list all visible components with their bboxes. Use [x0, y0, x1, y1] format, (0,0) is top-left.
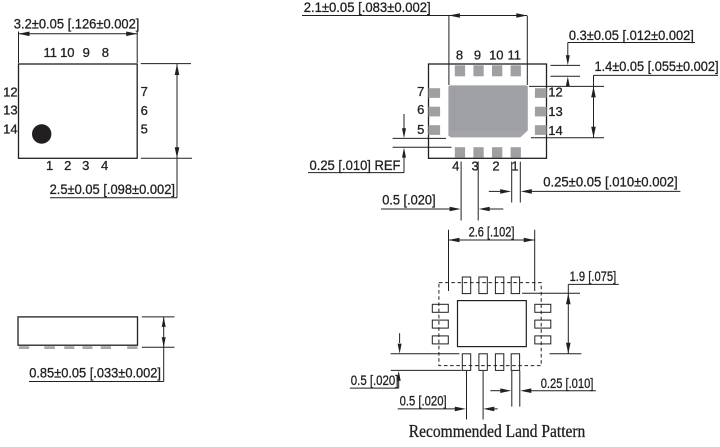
svg-text:10: 10	[489, 48, 503, 63]
svg-text:14: 14	[3, 122, 17, 137]
svg-text:1.4±0.05 [.055±0.002]: 1.4±0.05 [.055±0.002]	[595, 59, 719, 74]
svg-text:14: 14	[548, 123, 562, 138]
svg-text:8: 8	[102, 45, 109, 60]
svg-text:0.85±0.05 [.033±0.002]: 0.85±0.05 [.033±0.002]	[29, 366, 161, 381]
svg-text:2: 2	[64, 158, 71, 173]
svg-text:0.3±0.05 [.012±0.002]: 0.3±0.05 [.012±0.002]	[569, 28, 694, 43]
svg-text:12: 12	[3, 85, 17, 100]
svg-text:0.5 [.020]: 0.5 [.020]	[351, 373, 399, 388]
svg-text:3.2±0.05 [.126±0.002]: 3.2±0.05 [.126±0.002]	[14, 17, 140, 32]
svg-text:6: 6	[141, 103, 148, 118]
svg-text:0.25 [.010]: 0.25 [.010]	[541, 376, 594, 391]
svg-text:0.5 [.020]: 0.5 [.020]	[382, 193, 435, 208]
svg-text:9: 9	[474, 48, 481, 63]
svg-text:3: 3	[82, 158, 89, 173]
svg-text:5: 5	[417, 122, 424, 137]
svg-text:2.5±0.05 [.098±0.002]: 2.5±0.05 [.098±0.002]	[50, 182, 175, 197]
svg-text:2.1±0.05 [.083±0.002]: 2.1±0.05 [.083±0.002]	[304, 0, 431, 15]
svg-text:13: 13	[3, 102, 17, 117]
svg-text:0.25±0.05 [.010±0.002]: 0.25±0.05 [.010±0.002]	[543, 174, 678, 189]
svg-text:10: 10	[60, 45, 74, 60]
svg-text:7: 7	[417, 84, 424, 99]
svg-text:5: 5	[141, 121, 148, 136]
svg-text:13: 13	[548, 104, 562, 119]
svg-text:3: 3	[471, 158, 478, 173]
svg-text:1: 1	[511, 158, 518, 173]
svg-text:4: 4	[452, 158, 459, 173]
svg-text:0.5 [.020]: 0.5 [.020]	[400, 394, 447, 409]
svg-text:11: 11	[507, 48, 521, 63]
svg-text:12: 12	[548, 85, 562, 100]
svg-text:2.6 [.102]: 2.6 [.102]	[469, 225, 515, 240]
svg-text:2: 2	[492, 158, 499, 173]
svg-text:Recommended Land Pattern: Recommended Land Pattern	[409, 421, 586, 441]
svg-text:1.9 [.075]: 1.9 [.075]	[570, 269, 617, 284]
svg-text:9: 9	[83, 45, 90, 60]
svg-text:8: 8	[456, 48, 463, 63]
svg-text:4: 4	[101, 158, 108, 173]
svg-text:0.25 [.010] REF: 0.25 [.010] REF	[310, 158, 401, 173]
svg-text:11: 11	[43, 45, 57, 60]
svg-text:1: 1	[46, 158, 53, 173]
svg-text:7: 7	[141, 84, 148, 99]
svg-text:6: 6	[417, 102, 424, 117]
